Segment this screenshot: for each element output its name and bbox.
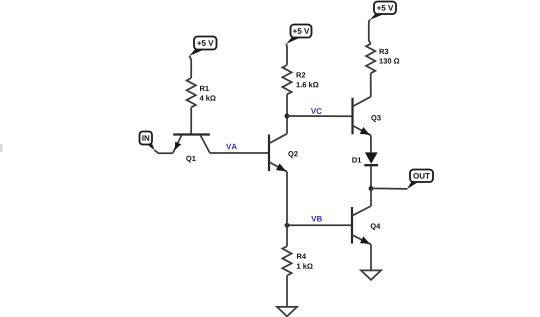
label Q1	[186, 156, 195, 163]
junction node VB	[285, 223, 290, 228]
label Q4	[371, 223, 381, 230]
wire +5V flag to R1 top	[189, 56, 191, 78]
wire VB: junction to Q4 base	[287, 224, 352, 226]
value label R2 1.6 kOhm	[296, 72, 318, 87]
wire +5V flag to R2 top	[285, 44, 288, 65]
label Q3	[371, 115, 380, 122]
wire R4 bottom to ground	[286, 276, 288, 307]
diode D1	[364, 152, 378, 165]
wire Q3 emitter to D1 anode	[370, 135, 372, 152]
wire D1 cathode through OUT node to Q4 collector	[370, 166, 372, 206]
power flag +5V (supply for R1)	[189, 37, 216, 56]
wire Q2 emitter through VB node to R4 top	[286, 172, 288, 247]
wire VC: junction to Q3 base	[287, 115, 353, 117]
wire IN flag to Q1 emitter	[154, 150, 172, 153]
ground (R4 bottom)	[277, 307, 297, 317]
value label R1 4 kOhm	[200, 86, 216, 101]
label D1	[352, 157, 361, 162]
wire +5V flag to R3 top	[369, 20, 371, 44]
wire R2 bottom through VC node to Q2 collector	[286, 94, 288, 133]
transistor Q1 (PNP)	[173, 135, 210, 154]
wire R3 bottom to Q3 collector	[370, 73, 372, 97]
resistor R1	[187, 78, 196, 107]
resistor R3	[366, 44, 375, 73]
label Q2	[288, 151, 297, 158]
junction node VC	[285, 114, 290, 119]
value label R4 1 kOhm	[297, 254, 313, 269]
resistor R2	[282, 65, 291, 94]
transistor Q4 (NPN)	[352, 206, 371, 245]
wire VA: Q1 collector to Q2 base	[210, 152, 269, 154]
wire junction to OUT flag	[371, 187, 407, 190]
resistor R4	[282, 246, 291, 275]
node flag OUT	[407, 170, 433, 190]
value label R3 130 Ohm	[379, 49, 399, 64]
node label VA	[226, 144, 237, 150]
transistor Q2 (NPN)	[269, 134, 287, 172]
transistor Q3 (NPN)	[353, 97, 371, 136]
edge artifact left margin	[0, 144, 3, 152]
node label VB	[311, 216, 322, 222]
power flag +5V (supply for R3)	[370, 2, 396, 20]
ground (Q4 emitter)	[361, 270, 381, 280]
node flag IN	[140, 132, 155, 151]
wire R1 bottom to Q1 base	[190, 107, 192, 134]
node label VC	[311, 108, 322, 114]
junction node OUT	[369, 186, 374, 191]
wire Q4 emitter to ground	[370, 245, 372, 271]
power flag +5V (supply for R2)	[286, 25, 311, 44]
